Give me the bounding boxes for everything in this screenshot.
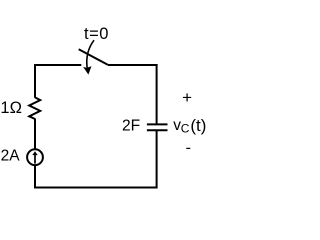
svg-text:2A: 2A [1, 147, 21, 164]
svg-text:+: + [182, 88, 192, 107]
svg-text:1Ω: 1Ω [0, 99, 22, 117]
wire bottom segment [34, 187, 157, 189]
wire source to bottom [34, 165, 36, 188]
wire top-right segment [108, 64, 158, 66]
wire right vertical lower [156, 130, 158, 188]
capacitor C1 top plate [147, 123, 168, 125]
wire top-left segment [35, 64, 81, 66]
current source I1 arrow [32, 151, 37, 163]
capacitor C1 bottom plate [147, 129, 168, 131]
wire right vertical upper [156, 64, 158, 124]
svg-text:2F: 2F [122, 117, 140, 134]
wire resistor to source [34, 119, 36, 150]
switch SW1 closing-arrow [83, 40, 94, 74]
current source I1 circle [27, 149, 43, 165]
svg-text:-: - [186, 140, 191, 157]
switch SW1 blade [79, 49, 108, 65]
svg-text:vC(t): vC(t) [173, 116, 206, 136]
svg-text:t=0: t=0 [84, 25, 109, 43]
wire left vertical upper [34, 64, 36, 98]
resistor R1 zigzag [29, 97, 40, 119]
